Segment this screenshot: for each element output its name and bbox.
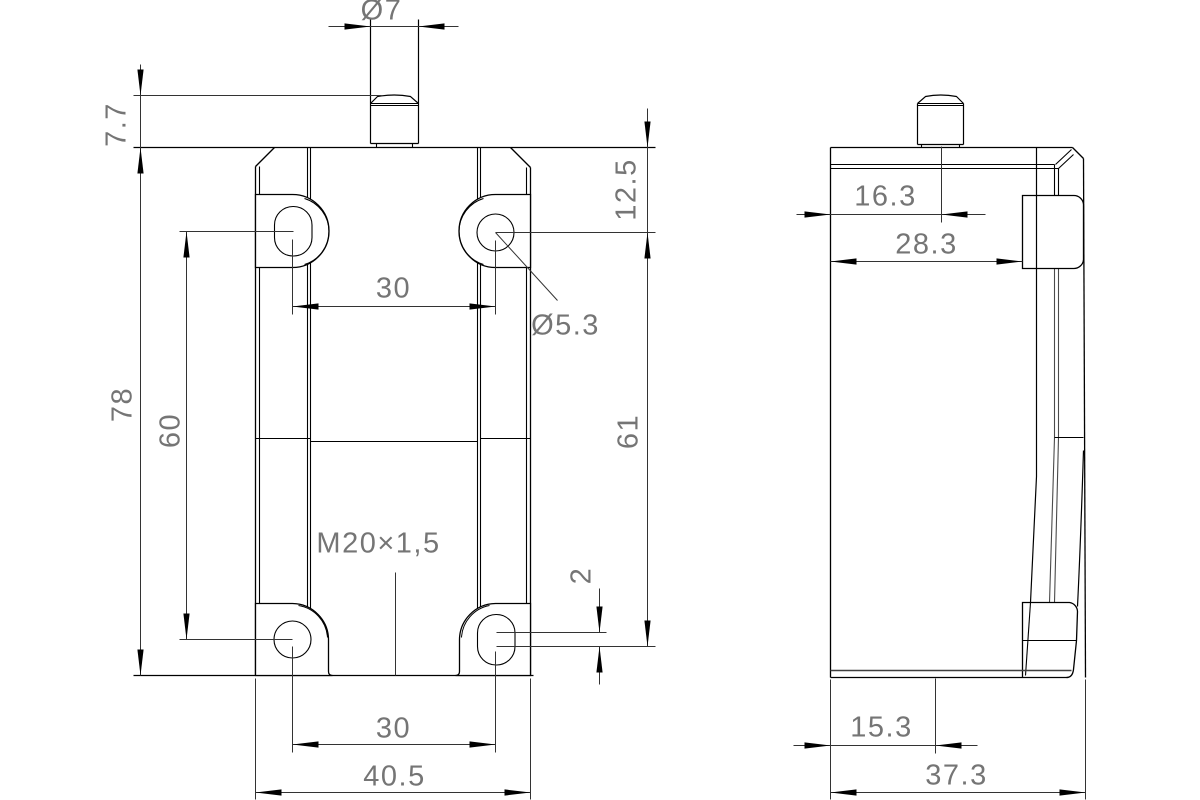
side plunger edges [918,104,964,145]
side plunger bottom line [918,144,964,146]
plunger centerline [941,147,943,223]
side face edge line (crosses flag) [1031,148,1037,603]
hole bottom-left (circle) [274,621,311,658]
dim 2 extension lines [497,633,656,647]
right outer edge [530,168,532,676]
side lever right edge curve [1078,451,1084,607]
ear top-left inner arc [305,199,329,265]
svg-text:Ø5.3: Ø5.3 [531,310,600,342]
dim Ø7 line [329,26,459,28]
side plunger dome [918,95,964,104]
top-left chamfer [256,148,275,167]
divider line center [311,441,478,443]
side bottom edge [831,677,1068,679]
dim 37.3 line [831,792,1086,794]
ear top-left [256,195,330,268]
side right edge [1084,159,1086,678]
svg-text:40.5: 40.5 [363,761,425,793]
svg-text:Ø7: Ø7 [361,0,403,27]
svg-text:30: 30 [376,713,411,745]
left outer edge [255,167,257,676]
svg-text:61: 61 [613,414,645,449]
side lever block [1023,603,1078,678]
dim 37.3 extension lines [831,680,1086,800]
side inner panel vertical pair upper [1055,165,1059,196]
plunger front dome [371,95,419,104]
ear bottom-right [456,604,531,676]
leader Ø5.3 [496,233,558,301]
dim 7.7 / 78 vertical line [140,65,142,676]
dim 40.5 extension lines [256,679,531,800]
ear top-right [459,195,531,268]
dim 12.5 / 61 vertical line [647,109,649,647]
side lever block internal line [1023,640,1077,642]
svg-text:60: 60 [155,413,187,448]
dim 60 line [186,232,188,640]
side track pair below flag [1055,269,1059,438]
side lever arm edge inside block [1026,603,1031,676]
M20x1,5 leader line [395,573,397,676]
top-right chamfer [511,148,531,168]
dim 28.3 line [831,261,1023,263]
ear top-right inner arc [459,199,483,265]
dim 7.7 extension line top [134,95,382,97]
side flag plate [1023,195,1084,268]
body bottom edge (with left extension) [134,675,534,677]
hole top-left (slot) [275,207,313,257]
hole top-right (circle) [477,214,514,251]
dim 30 bottom extension lines [293,647,496,753]
svg-text:16.3: 16.3 [854,181,916,213]
ear bottom-left [256,604,333,676]
body top edge (with extension lines left and right) [134,147,656,149]
side inner panel top lines [831,165,1059,169]
dim 30 top extension lines [293,240,496,315]
bottom centerline for 15.3 [935,679,937,754]
plunger front: left and right edges incl. extension up to dim [371,20,419,144]
plunger front shoulder lines [371,104,419,106]
svg-text:30: 30 [376,273,411,305]
svg-text:M20×1,5: M20×1,5 [316,528,440,560]
side track tick [1055,437,1084,439]
dim 30 bottom line [293,744,496,746]
svg-text:7.7: 7.7 [101,102,133,147]
divider line right rail [481,438,531,440]
ear bottom-right inner arc [462,606,490,638]
side plunger shoulder lines [918,104,964,106]
divider line left rail [256,438,311,440]
side plunger feet [922,145,960,148]
svg-text:78: 78 [107,387,139,422]
dim 40.5 line [256,792,531,794]
left rail double line [308,148,311,676]
dim 2 vertical line [599,589,601,685]
dim 16.3 line [797,214,986,216]
side lever arm pair slanted [1050,438,1059,603]
dim 30 top line [293,306,496,308]
side inner panel corner diagonals [1056,150,1074,169]
svg-text:37.3: 37.3 [925,760,987,792]
dim 60 extension lines [180,232,294,640]
plunger front bottom line [371,143,419,145]
hole bottom-right (slot) [478,615,516,666]
svg-text:15.3: 15.3 [850,712,912,744]
side left edge [830,148,832,678]
ear bottom-left inner arc [299,606,328,638]
dim 15.3 line [794,745,978,747]
svg-text:12.5: 12.5 [611,158,643,220]
side top edge [831,147,1073,149]
right rail double line [478,148,481,676]
side top-right chamfer [1073,148,1084,159]
dim 12.5/61 extension line at hole center [496,232,656,234]
svg-text:28.3: 28.3 [895,229,957,261]
plunger front feet [377,144,413,148]
right inner edge line [526,168,528,674]
side bottom strip top line [831,670,1072,672]
svg-text:2: 2 [566,567,598,585]
left inner edge line [259,167,261,674]
